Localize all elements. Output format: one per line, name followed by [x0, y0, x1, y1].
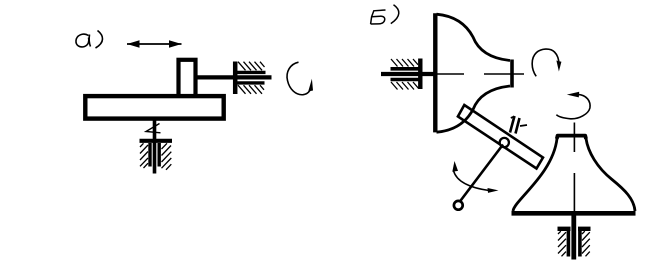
bearing support right: top bar — [233, 71, 266, 74]
bevel gear 1: neck right edge — [510, 60, 514, 88]
bearing support right: vertical bar — [233, 62, 238, 95]
lever — [460, 145, 504, 203]
rotation arrow lower (rod) — [556, 94, 590, 118]
horizontal shaft — [196, 75, 272, 79]
rotation arrow upper (gear1 shaft) — [532, 49, 559, 76]
gear2 shaft below — [571, 214, 576, 260]
gear2 support: left cap — [558, 227, 571, 231]
gear2 support: right inner bar — [578, 231, 582, 257]
label Б) — [371, 5, 399, 24]
bevel gear 2: right curve — [586, 139, 635, 212]
label а) — [76, 31, 103, 49]
screw pair ticks — [510, 116, 520, 134]
gear2 support: hatch left — [558, 231, 566, 256]
tool slide (small rectangle) — [179, 60, 196, 96]
gear1 support: bottom bar — [391, 78, 423, 82]
hinge circle — [500, 138, 509, 147]
bevel gear 1: bottom curve — [437, 86, 511, 132]
lever oscillation arrow — [454, 171, 489, 191]
gear1 support: hatch below — [391, 82, 419, 90]
bottom support: right inner bar — [157, 143, 160, 167]
connecting rod — [458, 105, 543, 169]
lever handle circle — [454, 201, 463, 210]
bevel gear 2: left curve — [513, 139, 557, 212]
bevel gear 1: top curve — [437, 14, 511, 60]
gear1 support: shaft — [381, 72, 434, 76]
vertical feed shaft — [153, 119, 157, 174]
gear1 support: vertical bar — [418, 59, 422, 90]
gear1 support: top bar — [391, 67, 423, 71]
bearing support right: hatch above — [238, 62, 265, 71]
gear2 support: left inner bar — [567, 231, 571, 257]
bearing support right: hatch below — [238, 85, 264, 94]
gear2 support: hatch right — [582, 231, 590, 256]
gear2 support: right cap — [578, 227, 591, 231]
bevel gear 2: top cap — [557, 136, 586, 139]
gear2 axis — [573, 123, 575, 212]
arrow mark on vertical shaft — [146, 124, 161, 133]
table (large rectangle) — [85, 96, 223, 119]
bottom support: left inner bar — [148, 143, 151, 167]
gear1 support: hatch above — [391, 59, 418, 67]
rotation arrow (spindle) — [287, 62, 311, 95]
bevel gear 2: bottom edge — [512, 211, 636, 216]
bottom support: hatch left — [140, 143, 148, 168]
double arrow (table travel) — [127, 40, 182, 48]
bevel gear 1: left edge — [433, 13, 437, 132]
gear1 axis line — [437, 73, 524, 75]
bearing support right: bottom bar — [233, 81, 265, 84]
bottom support: cap bar — [140, 139, 173, 143]
bottom support: hatch right — [162, 143, 172, 170]
